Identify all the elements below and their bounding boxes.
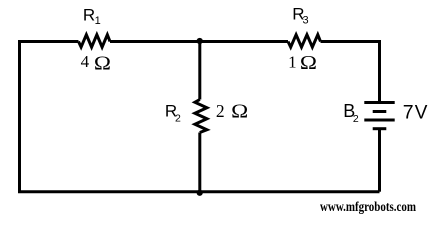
wire left and bottom rail [20, 42, 380, 192]
resistor R2 [195, 100, 207, 133]
battery B2 long plate top [364, 101, 394, 104]
svg-text:2: 2 [216, 101, 225, 121]
svg-text:V: V [415, 103, 428, 124]
node junction top [197, 38, 203, 44]
wire battery bottom [378, 129, 381, 192]
svg-text:R: R [83, 6, 95, 25]
battery B2 long plate lower [364, 119, 394, 122]
battery B2 short plate upper [373, 110, 387, 113]
svg-text:2: 2 [353, 113, 359, 125]
resistor R3 [288, 35, 321, 47]
battery B2 short plate bottom [373, 127, 387, 130]
svg-text:2: 2 [175, 113, 181, 125]
svg-text:3: 3 [303, 14, 309, 26]
label ohm symbol of R1 [94, 52, 111, 74]
node junction bottom [197, 190, 203, 196]
wire middle branch top [198, 42, 201, 100]
svg-text:Ω: Ω [94, 52, 111, 74]
svg-text:Ω: Ω [231, 100, 248, 122]
svg-text:7: 7 [403, 102, 414, 124]
resistor R1 [79, 35, 111, 47]
svg-text:1: 1 [95, 15, 101, 27]
svg-text:1: 1 [288, 52, 297, 71]
wire middle branch bottom [198, 133, 201, 192]
label ohm symbol of R3 [300, 52, 317, 74]
svg-text:Ω: Ω [300, 52, 317, 74]
wire top middle (R1 to junction to R3) [110, 40, 288, 43]
svg-text:4: 4 [81, 52, 90, 71]
svg-text:www.mfgrobots.com: www.mfgrobots.com [320, 199, 417, 214]
wire top right corner down to battery [321, 42, 380, 103]
label ohm symbol of R2 [231, 100, 248, 122]
